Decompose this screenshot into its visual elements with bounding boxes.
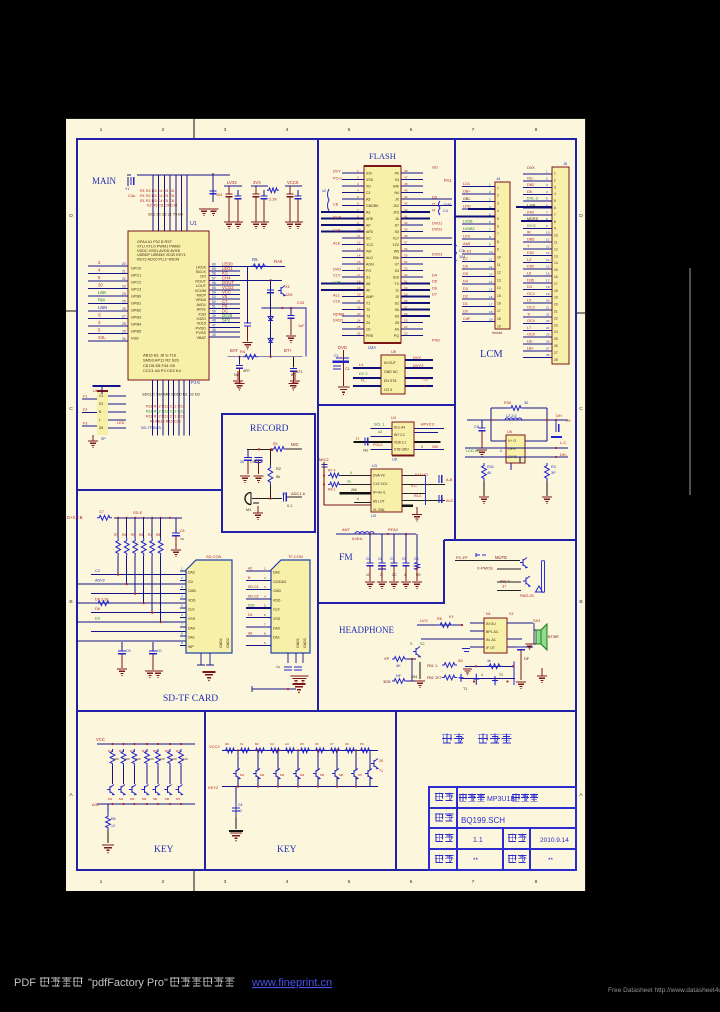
svg-text:D5: D5 <box>527 190 532 194</box>
thick short U3 bottom right <box>402 505 413 507</box>
svg-text:R11 R12 R13 C21 C22: R11 R12 R13 C21 C22 <box>146 405 184 409</box>
svg-text:2: 2 <box>489 190 491 194</box>
microphone bias cap C25b <box>255 458 263 461</box>
svg-text:18: 18 <box>546 285 550 289</box>
svg-text:DVX: DVX <box>527 166 535 170</box>
svg-text:26: 26 <box>122 307 126 311</box>
pullup resistor array (6 vertical) <box>116 538 121 556</box>
svg-text:12M: 12M <box>285 293 292 297</box>
wire C28 to ground <box>175 536 177 549</box>
svg-text:5: 5 <box>421 445 423 449</box>
small ground right of U7 <box>525 644 534 648</box>
svg-text:MICP: MICP <box>197 294 207 298</box>
resistor R5 (horizontal) <box>251 264 267 269</box>
svg-text:9: 9 <box>546 224 548 228</box>
section divider: KEY2/title area (x=396) <box>395 711 397 869</box>
svg-text:34: 34 <box>404 260 408 264</box>
svg-text:24: 24 <box>122 292 126 296</box>
sheet border: column tick mark (bottom strip) <box>193 870 195 891</box>
svg-text:FL.: FL. <box>361 378 367 383</box>
svg-text:11: 11 <box>489 258 492 262</box>
IC U8 small regulator body <box>381 355 405 394</box>
svg-text:M5: M5 <box>320 773 325 777</box>
capacitor C16 mid <box>288 316 295 319</box>
svg-text:DA0: DA0 <box>273 626 280 630</box>
svg-text:JA: JA <box>395 217 400 221</box>
svg-text:14: 14 <box>357 254 361 258</box>
wire verticals: pullup resistors to rail <box>118 518 160 538</box>
svg-text:BCLK: BCLK <box>196 270 206 274</box>
wire: horizontal feed y=175 <box>137 174 230 176</box>
svg-text:W5: W5 <box>394 250 399 254</box>
svg-text:C6: C6 <box>180 529 185 533</box>
svg-text:22: 22 <box>357 306 361 310</box>
svg-text:V+ O: V+ O <box>508 439 516 443</box>
NC stub with ground (below crystal area) <box>237 371 239 380</box>
svg-text:K6: K6 <box>315 742 319 746</box>
svg-text:4: 4 <box>264 594 266 598</box>
wire stub U4 l4 <box>370 448 392 450</box>
ground under U3 <box>412 515 422 519</box>
svg-text:BAT: BAT <box>230 348 238 353</box>
svg-text:3: 3 <box>357 182 359 186</box>
svg-text:OC4: OC4 <box>527 319 535 323</box>
junctions key1 rail <box>111 743 113 745</box>
svg-text:43: 43 <box>404 202 408 206</box>
svg-text:1u: 1u <box>276 665 280 669</box>
svg-text:C1b: C1b <box>333 298 340 303</box>
svg-text:GPB2: GPB2 <box>131 309 141 313</box>
ground under TF socket b <box>298 676 309 681</box>
svg-text:15: 15 <box>546 265 550 269</box>
branch2 blue cap <box>261 196 268 199</box>
svg-text:DY-S: DY-S <box>527 224 536 228</box>
svg-text:6: 6 <box>357 202 359 206</box>
connector J5 (LCM right) body <box>552 167 569 364</box>
svg-text:1: 1 <box>181 567 183 571</box>
wire: right branch down to B1 <box>292 357 294 368</box>
svg-text:2b0: 2b0 <box>351 488 357 492</box>
svg-text:4: 4 <box>350 471 352 475</box>
resistor R28 feedback <box>487 664 502 669</box>
svg-text:OC-: OC- <box>527 176 535 180</box>
svg-text:3: 3 <box>489 198 491 202</box>
svg-text:28: 28 <box>546 353 550 357</box>
svg-text:CO 5: CO 5 <box>384 388 392 392</box>
wire: U3 left row1 <box>341 475 371 477</box>
svg-text:A5: A5 <box>458 659 463 663</box>
svg-text:14: 14 <box>489 280 493 284</box>
svg-text:T3: T3 <box>366 315 370 319</box>
svg-text:7: 7 <box>546 210 548 214</box>
svg-text:10K: 10K <box>136 757 141 761</box>
svg-text:XP: XP <box>384 656 390 661</box>
svg-text:DA1: DA1 <box>188 636 195 640</box>
svg-text:=2: =2 <box>111 824 115 828</box>
svg-text:DVD2: DVD2 <box>333 317 343 322</box>
svg-text:D1: D1 <box>463 302 468 306</box>
wire: U3 left row2 <box>341 484 371 486</box>
svg-text:4: 4 <box>554 192 556 196</box>
long right nets of U2 <box>423 199 452 258</box>
wire C45 to ground <box>520 650 522 680</box>
svg-text:A-D1: A-D1 <box>463 250 472 254</box>
svg-text:1.1: 1.1 <box>473 837 483 844</box>
inductor L3 antenna <box>355 532 374 534</box>
svg-text:IF OT: IF OT <box>486 646 496 650</box>
svg-text:DVA VC: DVA VC <box>373 474 386 478</box>
svg-text:CCC1 A6 P3 CD2 K4: CCC1 A6 P3 CD2 K4 <box>143 368 182 373</box>
connector J2 top wire <box>93 385 121 387</box>
svg-text:4: 4 <box>286 127 289 133</box>
svg-text:**: ** <box>548 857 554 864</box>
svg-text:VCC5: VCC5 <box>287 180 299 185</box>
svg-text:USBDP USBDM VD33 KEY1: USBDP USBDM VD33 KEY1 <box>137 253 186 257</box>
svg-text:46: 46 <box>404 182 408 186</box>
svg-text:7: 7 <box>489 228 491 232</box>
op-amp U6 body <box>506 435 525 463</box>
svg-text:58: 58 <box>212 272 216 276</box>
svg-text:U6: U6 <box>507 430 512 434</box>
svg-text:17: 17 <box>489 303 493 307</box>
svg-text:6: 6 <box>181 613 183 617</box>
svg-text:24: 24 <box>357 319 361 323</box>
svg-text:8: 8 <box>357 215 359 219</box>
thick stub row J5 b <box>521 220 552 222</box>
svg-text:2: 2 <box>181 576 183 580</box>
svg-text:XC: XC <box>366 237 371 241</box>
ground under SD socket <box>203 672 216 678</box>
svg-text:PDF: PDF <box>14 977 36 989</box>
svg-text:7: 7 <box>472 879 475 885</box>
ground key2 <box>230 833 242 838</box>
svg-text:SP2: SP2 <box>222 318 231 323</box>
svg-text:2: 2 <box>546 176 548 180</box>
wire: U7 feedback row <box>465 665 514 667</box>
svg-text:DA1: DA1 <box>273 636 280 640</box>
svg-text:D52: D52 <box>527 251 534 255</box>
wire: U1 pin CH4 long net <box>240 279 282 281</box>
svg-text:CD: CD <box>188 580 194 584</box>
resistor R6 2.2K between branches <box>267 188 279 193</box>
svg-text:C4: C4 <box>238 803 243 807</box>
svg-text:42: 42 <box>404 208 408 212</box>
wire: B1 to ground <box>292 371 294 383</box>
svg-text:NDNR: NDNR <box>333 311 344 316</box>
wire down from R22 <box>269 485 271 499</box>
junctions on SD power rail <box>117 517 119 519</box>
junction fb right <box>512 665 514 667</box>
svg-text:S: S <box>98 313 101 318</box>
svg-text:32: 32 <box>404 273 408 277</box>
thick bus U4 r3 <box>415 441 441 443</box>
svg-text:X32O: X32O <box>196 317 206 321</box>
svg-text:u2: u2 <box>378 430 382 434</box>
jumper bars below TF <box>284 667 302 670</box>
svg-text:C0: C0 <box>157 649 162 653</box>
svg-text:21: 21 <box>122 270 126 274</box>
svg-text:DVL-3: DVL-3 <box>527 197 538 201</box>
svg-text:27: 27 <box>554 351 558 355</box>
thick stub row J4 b <box>468 208 495 210</box>
svg-text:C5: C5 <box>402 557 407 561</box>
resistor R21 horizontal record <box>272 447 286 452</box>
svg-text:GPC3: GPC3 <box>131 288 141 292</box>
svg-text:3k: 3k <box>487 659 491 663</box>
svg-text:17: 17 <box>497 309 501 313</box>
IC U2 NAND flash body <box>364 166 401 343</box>
title row3 date label (chinese) <box>508 834 526 843</box>
wire: U1 pin LRCK to pull-up R5 <box>240 265 285 267</box>
svg-text:4: 4 <box>500 449 502 453</box>
svg-text:3: 3 <box>181 585 183 589</box>
svg-text:ADC1.6: ADC1.6 <box>291 491 306 496</box>
svg-text:10: 10 <box>497 255 501 259</box>
svg-text:15: 15 <box>497 294 501 298</box>
svg-text:DA2: DA2 <box>273 571 280 575</box>
ground under TF socket c <box>293 684 306 690</box>
wire: branch3 top tie <box>285 185 302 187</box>
scan artifact line <box>689 268 691 495</box>
svg-text:57: 57 <box>212 276 216 280</box>
svg-text:LNM: LNM <box>98 305 107 310</box>
svg-text:49: 49 <box>212 314 216 318</box>
svg-text:KEY2: KEY2 <box>208 785 219 790</box>
svg-text:4R7: 4R7 <box>243 369 250 373</box>
svg-text:9: 9 <box>357 221 359 225</box>
wire C25 to ground <box>247 461 249 474</box>
svg-text:1: 1 <box>264 567 266 571</box>
svg-text:1: 1 <box>489 183 491 187</box>
wire: feedback loop rectangle <box>490 408 492 441</box>
svg-text:LV33: LV33 <box>227 180 237 185</box>
svg-text:36: 36 <box>404 247 408 251</box>
svg-text:PA1: PA1 <box>444 178 452 183</box>
svg-text:PC-FF: PC-FF <box>456 555 468 560</box>
svg-text:IF+4u IL: IF+4u IL <box>373 491 386 495</box>
svg-text:24: 24 <box>546 326 550 330</box>
svg-text:MUTE: MUTE <box>495 555 507 560</box>
junctions key1 bottom rail <box>111 803 113 805</box>
svg-text:24: 24 <box>554 330 558 334</box>
svg-text:DVD1: DVD1 <box>432 220 442 225</box>
svg-text:LRCK: LRCK <box>196 265 207 269</box>
svg-text:56: 56 <box>212 281 216 285</box>
IC U3 FM tuner body <box>371 469 402 512</box>
wire: key1 bottom rail <box>97 803 195 805</box>
wire record right <box>286 448 302 450</box>
diode triangle mute <box>536 586 543 592</box>
svg-text:SDCLK SDCMD SDD0 D1 D2 D3: SDCLK SDCMD SDD0 D1 D2 D3 <box>142 392 200 397</box>
svg-text:10: 10 <box>546 231 550 235</box>
capacitor C26 record out <box>284 493 287 502</box>
svg-text:CMD: CMD <box>188 589 196 593</box>
svg-text:R1: R1 <box>273 441 278 446</box>
svg-text:OBL: OBL <box>463 197 471 201</box>
wire bus: TF socket left pins <box>246 571 271 645</box>
svg-text:7: 7 <box>472 127 475 133</box>
svg-text:5: 5 <box>546 197 548 201</box>
svg-text:M3: M3 <box>130 797 135 801</box>
svg-text:U2A: U2A <box>368 345 376 350</box>
svg-text:30: 30 <box>122 337 126 341</box>
svg-text:1u: 1u <box>180 537 184 541</box>
junction on CH4 net <box>270 279 272 281</box>
capacitor C36 right of U3 <box>439 475 442 483</box>
svg-text:VDD: VDD <box>188 598 196 602</box>
svg-text:GND2: GND2 <box>303 638 307 648</box>
svg-text:26: 26 <box>554 344 558 348</box>
svg-text:M1: M1 <box>108 797 113 801</box>
svg-text:27: 27 <box>404 306 408 310</box>
svg-text:GPC1: GPC1 <box>131 274 141 278</box>
svg-text:14: 14 <box>546 258 550 262</box>
svg-text:10K: 10K <box>149 757 154 761</box>
resistor R22 vertical record <box>268 465 273 485</box>
svg-text:GND2: GND2 <box>226 638 230 648</box>
IC U4 small dac body <box>392 422 414 455</box>
svg-text:VSS: VSS <box>188 617 196 621</box>
svg-text:MP3U1B: MP3U1B <box>487 796 515 803</box>
svg-text:K2 R5 C8 C9 C10: K2 R5 C8 C9 C10 <box>147 204 177 208</box>
wire stub U4 r2 <box>415 432 438 434</box>
svg-text:BT+: BT+ <box>284 348 292 353</box>
wire: branch2 top tie <box>251 185 268 187</box>
svg-text:12: 12 <box>357 241 361 245</box>
svg-text:LNK: LNK <box>98 290 106 295</box>
svg-text:D5: D5 <box>432 278 437 283</box>
svg-text:6: 6 <box>546 204 548 208</box>
svg-text:XD: XD <box>366 185 371 189</box>
svg-text:30: 30 <box>404 286 408 290</box>
horizontal SD bus lines <box>77 575 187 642</box>
svg-text:1: 1 <box>546 170 548 174</box>
svg-text:LVDB2: LVDB2 <box>463 227 475 231</box>
svg-text:SD-TF CARD: SD-TF CARD <box>163 694 218 704</box>
junction rail a <box>490 419 492 421</box>
wire mute rail 2 <box>497 568 521 570</box>
svg-text:R8: R8 <box>156 533 160 537</box>
svg-text:C1: C1 <box>366 191 371 195</box>
svg-text:10: 10 <box>366 573 370 577</box>
transistor Q5 headphone <box>413 647 420 657</box>
resistor R30 feedback top <box>509 406 523 411</box>
svg-text:U3: U3 <box>371 514 376 518</box>
svg-text:X2L: X2L <box>98 335 106 340</box>
svg-text:60: 60 <box>212 262 216 266</box>
wire R8 to ground <box>107 830 109 843</box>
svg-text:2: 2 <box>162 127 165 133</box>
wire: key2 sense to ground <box>235 787 237 804</box>
curly brace left of U2 <box>328 189 330 211</box>
schematic sheet (cream page) <box>66 118 586 891</box>
ground b below C19 <box>209 209 219 213</box>
svg-text:SCL A4: SCL A4 <box>394 426 405 430</box>
svg-text:20: 20 <box>546 299 550 303</box>
svg-text:4: 4 <box>181 594 183 598</box>
svg-text:4.: 4. <box>481 673 484 677</box>
svg-text:19: 19 <box>357 286 361 290</box>
svg-text:16: 16 <box>554 275 558 279</box>
svg-text:17: 17 <box>357 273 361 277</box>
svg-text:MIC: MIC <box>291 442 299 447</box>
svg-text:5: 5 <box>497 217 499 221</box>
svg-text:AFD: AFD <box>366 230 374 234</box>
svg-text:D3: D3 <box>95 617 100 621</box>
title row1 value <box>459 794 485 802</box>
svg-text:D5: D5 <box>99 426 103 430</box>
flash decoupling cap C31 plate thick <box>333 361 350 363</box>
thick nets right of U8 <box>405 360 433 386</box>
section divider: MAIN box bottom (y=490) <box>77 489 222 491</box>
svg-text:DO: DO <box>200 275 206 279</box>
svg-text:10K: 10K <box>172 757 177 761</box>
svg-text:23: 23 <box>357 312 361 316</box>
key1 resistor array (7 vertical) <box>110 749 115 766</box>
svg-text:PVD: PVD <box>432 337 440 342</box>
thick bus U4 l3 <box>354 441 393 443</box>
svg-text:KEY: KEY <box>154 845 174 855</box>
curly brace right of U2 pins <box>439 201 441 215</box>
svg-text:20: 20 <box>98 283 103 288</box>
svg-text:VD15: VD15 <box>197 322 206 326</box>
svg-text:52: 52 <box>212 300 216 304</box>
svg-text:POL2: POL2 <box>373 443 383 447</box>
ground below C16 <box>286 336 296 340</box>
svg-text:25: 25 <box>546 333 550 337</box>
svg-text:JX: JX <box>395 198 400 202</box>
svg-text:R4: R4 <box>122 533 126 537</box>
svg-text:F1: F1 <box>83 395 87 399</box>
wire C30 ground <box>152 654 154 670</box>
wire: right vertical net x=305.9 <box>305 308 307 357</box>
branch2 cap (maroon) <box>253 194 260 197</box>
wire stub U4 r4 <box>415 448 444 450</box>
svg-text:16: 16 <box>546 272 550 276</box>
svg-text:L2 2.0: L2 2.0 <box>506 414 516 418</box>
wire bus: U7 right stubs <box>507 623 522 647</box>
svg-text:48: 48 <box>404 169 408 173</box>
svg-text:RFA2: RFA2 <box>388 527 399 532</box>
svg-text:2.2K: 2.2K <box>269 197 278 202</box>
svg-text:1: 1 <box>497 186 499 190</box>
svg-text:8: 8 <box>489 235 491 239</box>
wire: key2 top rail with inline resistors <box>222 749 378 751</box>
svg-text:R4: R4 <box>240 349 246 354</box>
svg-text:LRD: LRD <box>463 205 471 209</box>
svg-text:2: 2 <box>357 176 359 180</box>
wire: headphone input net <box>417 624 462 626</box>
svg-text:14: 14 <box>497 286 501 290</box>
svg-text:remad: remad <box>492 331 502 335</box>
svg-text:N1: N1 <box>486 612 491 616</box>
transistor Q7 mute <box>520 558 527 568</box>
title row1 label (chinese) <box>435 793 453 802</box>
svg-text:D4: D4 <box>463 280 468 284</box>
svg-text:DF: DF <box>524 656 530 661</box>
thick bus wires out of U2 right <box>401 212 430 316</box>
svg-text:YCC: YCC <box>366 243 374 247</box>
resistor R7 at SD power <box>97 515 112 520</box>
svg-text:250: 250 <box>432 445 438 449</box>
wire: C17 to ground <box>239 368 241 383</box>
wire stubs below TF socket <box>252 653 303 692</box>
svg-text:C: C <box>579 406 583 412</box>
svg-text:JP: JP <box>282 492 287 496</box>
branch3 grounds <box>285 222 295 226</box>
svg-text:DVD3: DVD3 <box>432 251 442 256</box>
svg-text:F3: F3 <box>83 422 87 426</box>
